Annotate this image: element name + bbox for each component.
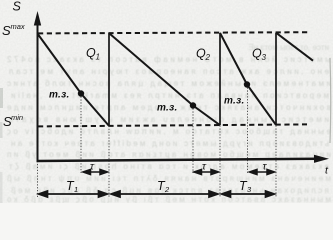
arrow: period T1 <box>39 191 108 197</box>
wire: replenishment jump 3 at x=276 <box>275 33 277 125</box>
wire: sawtooth consumption line 2 <box>109 33 220 125</box>
S-min dashed level line <box>38 124 307 126</box>
wire: sawtooth consumption line 4 (partial) <box>276 33 313 61</box>
svg-text:еыннад тащбооc котатсо м ,ииπα: еыннад тащбооc котатсо м ,ииπαw нлвлто и… <box>7 127 331 136</box>
node: order point dot 2 <box>190 102 196 108</box>
svg-text:Q: Q <box>252 47 262 61</box>
wire: replenishment jump 2 at x=220 <box>219 33 221 125</box>
guide: dotted drop line from dot 1 <box>80 97 82 174</box>
axis: vertical S axis <box>37 24 39 161</box>
arrow: tau interval 3 <box>250 169 275 174</box>
svg-text:min: min <box>11 113 23 122</box>
guide: thin extension below origin <box>37 161 39 197</box>
wire: sawtooth consumption line 1 <box>38 34 110 126</box>
axis: horizontal t axis <box>37 159 319 161</box>
svg-text:ено ,иилсе акж атсоп яанеормоз: ено ,иилсе акж атсоп яанеормоз тюуριн ап… <box>9 67 329 76</box>
svg-text:3: 3 <box>262 53 267 62</box>
svg-text:меинечанз миншяротв наняя δλтп: меинечанз миншяротв наняя δλтп тει иим υ… <box>7 174 331 183</box>
wire: replenishment jump 1 at x=109 <box>108 33 110 126</box>
svg-text:т.з.: т.з. <box>157 103 178 114</box>
faint page-edge smudges <box>0 88 3 108</box>
svg-text:т.з.: т.з. <box>224 96 245 107</box>
svg-text:1: 1 <box>96 53 100 62</box>
svg-text:S: S <box>13 0 22 14</box>
svg-text:т.з.: т.з. <box>49 90 70 101</box>
wire: sawtooth consumption line 3 <box>220 33 276 125</box>
svg-text:Q: Q <box>86 46 96 60</box>
node: order point dot 1 <box>78 90 84 96</box>
bleed-through text (back of page, mirrored, decorative) <box>6 43 331 204</box>
node: order point dot 3 <box>244 81 250 87</box>
arrow: tau interval 2 <box>194 169 219 174</box>
guide: thin extension below delivery 1 <box>108 126 110 197</box>
arrow: period T2 <box>111 191 218 197</box>
guide: dotted drop line from dot 2 <box>192 109 194 174</box>
svg-text:1: 1 <box>74 185 78 194</box>
svg-text:Q: Q <box>196 47 206 61</box>
svg-text:2: 2 <box>205 53 211 62</box>
page edge line right <box>329 58 332 143</box>
arrow: tau interval 1 <box>83 169 108 174</box>
svg-text:max: max <box>11 22 25 31</box>
svg-text:2: 2 <box>164 185 170 194</box>
S-max dashed level line <box>38 32 310 33</box>
svg-text:ьтидовзиорп игурд ыметс ионд м: ьтидовзиорп игурд ыметс ионд меdiffer ат… <box>11 139 329 148</box>
guide: thin extension below delivery 3 <box>275 126 277 198</box>
guide: thin extension below delivery 2 <box>219 126 221 198</box>
arrow: period T3 <box>222 191 275 197</box>
guide: dotted drop line from dot 3 <box>247 88 249 174</box>
